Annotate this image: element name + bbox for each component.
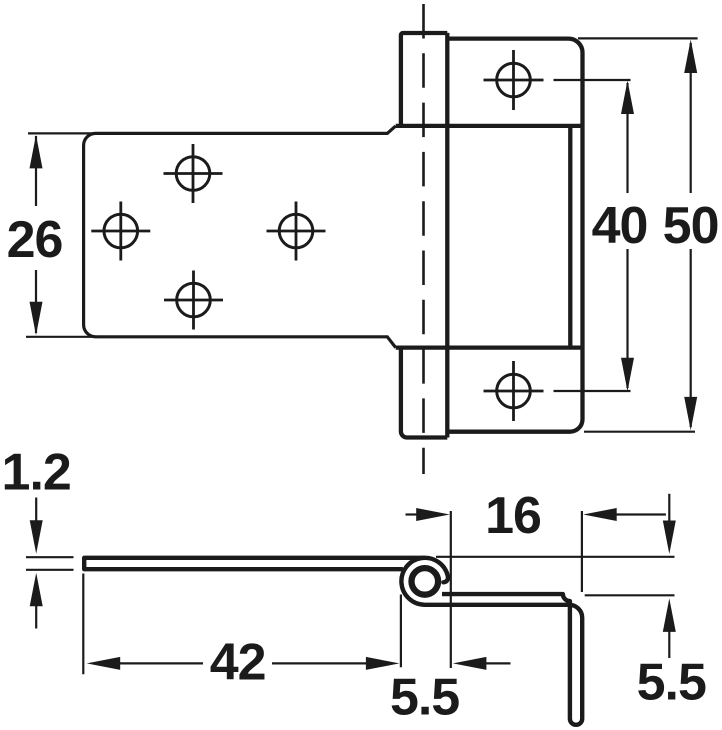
arrowhead 50 down	[684, 397, 697, 431]
arrowhead 5.5 right-dim up	[663, 598, 676, 632]
left leaf side view	[84, 558, 425, 569]
ext line curl left tangent	[400, 595, 402, 668]
svg-text:42: 42	[210, 633, 266, 691]
svg-text:50: 50	[663, 197, 719, 255]
ext line 42 left	[82, 574, 84, 675]
dim 5.5 right line lower	[668, 631, 670, 658]
right plate outline	[447, 39, 582, 432]
hole L3	[279, 214, 313, 248]
ext line leg outer plane	[581, 511, 583, 592]
arrowhead 5.5 left-dim	[453, 657, 487, 670]
band bottom line	[396, 345, 583, 349]
knuckle top-view top	[401, 33, 447, 126]
dim 5.5 left tail	[486, 662, 511, 664]
dim 40 line	[626, 83, 628, 388]
crosshair L1	[164, 144, 223, 203]
dim 16 line right	[617, 513, 666, 515]
arrowhead 40 down	[621, 358, 634, 392]
arrowhead 50 up	[684, 40, 697, 74]
crosshair L3	[267, 202, 326, 261]
dim 1.2 line upper	[35, 498, 37, 522]
band top line	[396, 124, 583, 128]
crosshair R2	[484, 361, 544, 421]
dim 16 line left	[406, 513, 417, 515]
ext line leaf top plane right	[436, 556, 675, 558]
arrowhead 16 left	[583, 508, 617, 521]
tick lines 1.2	[26, 557, 74, 570]
svg-text:40: 40	[592, 197, 648, 255]
arrowhead 1.2 down	[30, 520, 43, 554]
arrowhead 40 up	[621, 81, 634, 115]
hole R1	[497, 63, 531, 97]
dim 1.2 line lower	[35, 606, 37, 629]
ext line pivot plane	[450, 511, 452, 668]
arrowhead 16 right	[416, 508, 450, 521]
dim 5.5 right line upper	[668, 494, 670, 521]
knuckle top-view bottom	[401, 348, 447, 438]
centerline	[422, 4, 425, 474]
arrowhead 5.5 right-dim down	[663, 521, 676, 555]
hole L4	[177, 283, 211, 317]
arrowhead 26 down	[30, 302, 43, 336]
dim 40 extension bottom (from hole R2)	[554, 390, 631, 392]
hole L2	[104, 214, 138, 248]
dim 26 line	[35, 136, 37, 333]
svg-text:26: 26	[7, 211, 63, 269]
hole R2	[497, 374, 531, 408]
dim 50 extension top	[578, 37, 698, 39]
arrowhead 26 up	[30, 135, 43, 169]
ext line right leaf top surface	[585, 594, 675, 596]
crosshair R1	[484, 50, 544, 110]
arrowhead 1.2 up	[30, 573, 43, 607]
arrowhead 42 right	[366, 657, 400, 670]
dim 50 extension bottom	[584, 431, 695, 433]
svg-text:5.5: 5.5	[390, 669, 459, 727]
dim 26 extension top	[28, 132, 98, 134]
crosshair L2	[91, 202, 150, 261]
svg-text:5.5: 5.5	[637, 653, 706, 711]
crosshair L4	[164, 271, 223, 330]
curl pin ring	[412, 568, 439, 595]
dim 50 line	[690, 43, 692, 427]
curl tuck (sheet end)	[443, 576, 448, 582]
dim 42 line	[120, 662, 367, 664]
left plate	[84, 126, 396, 348]
knuckle top-view right edge	[445, 33, 449, 438]
arrowhead 42 left	[87, 657, 121, 670]
svg-text:1.2: 1.2	[2, 443, 71, 501]
dim 26 extension bottom	[26, 336, 98, 338]
right plate inner bend line	[568, 126, 572, 348]
curl outer + right leaf	[401, 558, 582, 725]
dim 40 extension top (from hole R1)	[554, 79, 631, 81]
hole L1	[176, 157, 210, 191]
svg-text:16: 16	[485, 487, 541, 545]
